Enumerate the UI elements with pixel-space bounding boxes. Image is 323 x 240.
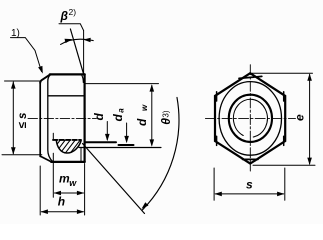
upper hex edge line (48, 95, 84, 97)
insert dome section boundary (56, 140, 81, 153)
theta arc arrowhead (142, 202, 149, 209)
svg-text:3): 3) (161, 110, 170, 117)
mw left arrowhead (54, 191, 61, 196)
dim s: left extension (213, 168, 215, 200)
chamfer curve on front flat (48, 75, 53, 162)
dim mw line (55, 192, 84, 194)
nut bottom-left chamfer (40, 156, 51, 162)
dw reference line (79, 147, 161, 149)
dim mw/h: right extension (84, 164, 86, 216)
dim s: right extension (284, 168, 286, 200)
dim d arrow line (106, 122, 108, 140)
upper-left corner truncation (216, 92, 218, 101)
countersink cone edge 45deg (83, 144, 145, 214)
leader underline of beta (59, 24, 84, 31)
beta chamfer slant line (70, 29, 83, 74)
beta arc right arrowhead (83, 38, 91, 43)
extension line right of nut (85, 83, 159, 85)
dim s line (215, 193, 283, 195)
beta angle dimension arc (61, 39, 94, 44)
svg-text:e: e (293, 114, 307, 121)
upper-right corner truncation (283, 92, 285, 101)
label h (58, 194, 65, 208)
h right arrowhead (77, 209, 84, 214)
svg-text:d: d (111, 114, 125, 122)
nut left edge (39, 82, 41, 156)
label d (92, 113, 106, 121)
dim d arrowhead (105, 134, 110, 141)
beta arc left arrowhead (65, 39, 73, 43)
s left arrowhead (214, 192, 221, 197)
inner circle thin with gap (233, 99, 267, 137)
nut top-left chamfer (40, 74, 50, 83)
dim h line (41, 211, 83, 213)
label s (246, 178, 253, 192)
svg-text:θ: θ (159, 118, 173, 125)
dim s: top arrowhead (11, 81, 16, 88)
label beta 2) (60, 7, 77, 23)
label <= s (17, 113, 29, 129)
dim dw top arrowhead (150, 84, 155, 91)
dim s: bottom arrowhead (11, 147, 16, 154)
label theta 3) (159, 110, 173, 125)
top corner truncation line (239, 76, 262, 78)
svg-text:β: β (60, 9, 69, 23)
dim s: bottom extension line (2, 154, 42, 156)
svg-text:s: s (246, 178, 253, 192)
dim dw arrow line (151, 86, 153, 146)
dim mw: left extension upper (52, 133, 54, 139)
nut top face (50, 73, 85, 75)
label mw (59, 172, 77, 189)
dim mw: left extension lower (52, 153, 54, 197)
nut bottom face (51, 161, 84, 163)
d reference line (85, 141, 116, 143)
thread bore circle thick (229, 95, 272, 142)
leader line for note 1) (11, 38, 42, 72)
dim s: vertical dimension line (12, 82, 14, 154)
lower-right corner truncation (283, 136, 285, 145)
hidden insert line (dashed) (53, 139, 81, 141)
label e (293, 114, 307, 121)
mw right arrowhead (77, 191, 84, 196)
hexagon outline (215, 73, 285, 163)
dim dw bottom arrowhead (150, 139, 155, 146)
dim e: bottom extension (253, 164, 315, 166)
dim e: top extension (252, 72, 313, 74)
nut right face edge (83, 74, 85, 161)
lower-left corner truncation (216, 136, 218, 145)
section hatching (50, 139, 96, 154)
dim h: left extension (39, 166, 41, 215)
da reference line (119, 144, 134, 146)
svg-text:a: a (117, 108, 126, 113)
left view axis centerline (28, 117, 97, 119)
label dw (135, 104, 149, 126)
dim da arrow line (126, 123, 128, 141)
svg-text:≤ s: ≤ s (17, 113, 29, 129)
svg-text:h: h (58, 194, 65, 208)
label da (111, 108, 126, 122)
svg-text:w: w (140, 104, 149, 111)
e top arrowhead (307, 73, 312, 80)
right view horizontal centerline (205, 117, 295, 119)
s right arrowhead (277, 192, 284, 197)
svg-text:d: d (92, 113, 106, 121)
theta angle arc (143, 98, 179, 210)
small chamfer arc top right (82, 75, 84, 83)
h left arrowhead (41, 209, 48, 214)
svg-text:d: d (135, 118, 149, 126)
dim s: top extension line (5, 80, 41, 82)
right view vertical centerline (249, 65, 251, 171)
svg-text:w: w (69, 178, 77, 188)
e bottom arrowhead (307, 158, 312, 165)
arrowhead of leader 1) (38, 66, 43, 74)
note label 1) (11, 28, 20, 39)
bottom corner truncation line (243, 158, 259, 160)
dim e line (309, 75, 311, 165)
beta reference vertical line (83, 31, 85, 75)
dim da arrowhead (124, 136, 129, 143)
washer face step line (80, 147, 82, 162)
svg-text:2): 2) (69, 7, 77, 17)
chamfer circle (219, 82, 281, 156)
